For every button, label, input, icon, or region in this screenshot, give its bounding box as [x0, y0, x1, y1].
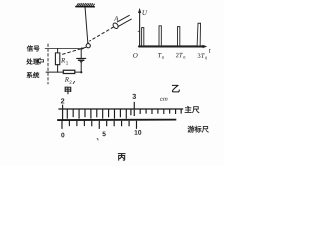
vernier ticks [62, 121, 137, 129]
wire bottom left segment [46, 71, 63, 73]
svg-text:A: A [113, 16, 119, 23]
pendulum ball [86, 44, 90, 48]
wire top [45, 47, 81, 49]
wire battery to bottom [80, 63, 82, 72]
U axis arrowhead [138, 8, 141, 13]
svg-text:2: 2 [61, 96, 65, 105]
svg-text:t: t [209, 47, 212, 55]
resistor R2 [63, 70, 75, 73]
svg-text:1: 1 [66, 60, 69, 65]
vernier slab line [57, 119, 176, 122]
hollow arrow to signal system [37, 58, 43, 63]
svg-text:信号: 信号 [27, 44, 41, 53]
speck [97, 138, 98, 140]
string attachment dot [87, 42, 89, 44]
pulse 4 [197, 23, 200, 45]
svg-text:cm: cm [160, 97, 168, 103]
wire right down to battery [80, 48, 82, 58]
svg-text:乙: 乙 [171, 84, 180, 94]
beam direction arrowhead at wire corner [81, 47, 84, 50]
wire top to R1 [57, 48, 59, 52]
svg-text:10: 10 [134, 130, 142, 137]
svg-text:3: 3 [132, 92, 136, 101]
svg-text:O: O [133, 52, 138, 60]
resistor R1 (photoresistor) [55, 53, 59, 65]
t axis arrowhead [203, 45, 208, 48]
laser beam dashed (ball to R1) [63, 47, 86, 54]
U axis tick [138, 30, 140, 32]
laser tube [112, 15, 131, 29]
svg-text:甲: 甲 [64, 85, 72, 95]
U axis [139, 11, 141, 47]
pendulum string [85, 7, 88, 43]
main scale mm ticks right half [140, 109, 181, 114]
laser beam dashed (laser to ball) [90, 27, 114, 41]
svg-text:0: 0 [183, 55, 185, 60]
svg-text:0: 0 [61, 132, 65, 139]
svg-text:丙: 丙 [118, 152, 126, 162]
main scale top line [58, 108, 183, 110]
wire R1 to bottom [57, 65, 59, 73]
svg-text:游标尺: 游标尺 [187, 125, 209, 134]
svg-text:U: U [142, 9, 148, 17]
svg-text:0: 0 [205, 55, 207, 60]
battery GB [77, 58, 86, 63]
pulse 2 [159, 26, 161, 46]
svg-text:2: 2 [69, 80, 72, 85]
ceiling support hatch [76, 4, 95, 7]
main scale mm ticks left half [67, 109, 131, 119]
main scale cm tick 2 [62, 105, 64, 121]
junction dot [80, 71, 82, 73]
t axis (thick baseline) [139, 45, 204, 47]
pulse 1 [142, 28, 144, 46]
svg-text:系统: 系统 [26, 71, 40, 80]
svg-text:处理: 处理 [25, 57, 40, 66]
dashed box left edge [47, 44, 49, 84]
svg-text:0: 0 [162, 55, 164, 60]
main scale cm tick 3 [133, 102, 135, 116]
wire bottom right segment [75, 71, 82, 73]
svg-text:主尺: 主尺 [184, 104, 200, 114]
pulse 3 [178, 27, 180, 46]
signal processing system text [25, 44, 40, 80]
svg-text:5: 5 [102, 131, 106, 138]
